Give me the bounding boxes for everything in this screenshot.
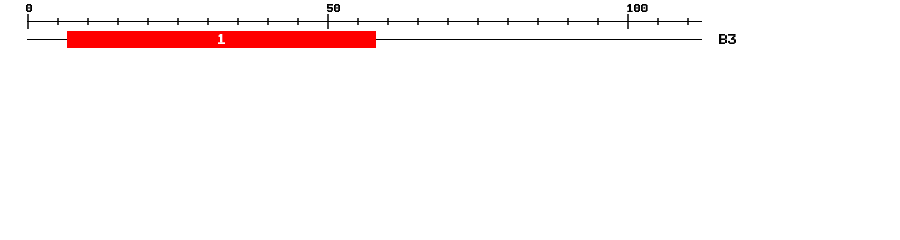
background [0, 0, 900, 58]
bar value label "1" (white) [218, 34, 225, 44]
ruler label "0" [26, 4, 32, 12]
ruler label "50" : digit 0 [334, 4, 340, 12]
ruler label "100" : digit 0 (first) [634, 4, 640, 12]
signal name "B3" : digit 3 [728, 34, 736, 44]
ruler major ticks at 0, 50, 100 [27, 14, 629, 29]
signal name "B3" : letter B [719, 34, 727, 44]
ruler label "100" : digit 1 [627, 4, 632, 12]
ruler label "50" : digit 5 [327, 4, 333, 12]
signal baseline wire (row B3) [27, 39, 702, 40]
ruler label "100" : digit 0 (second) [641, 4, 648, 12]
ruler minor ticks [57, 18, 689, 25]
ruler axis line [27, 21, 702, 22]
signal value bar (red, value 1) [67, 31, 376, 48]
